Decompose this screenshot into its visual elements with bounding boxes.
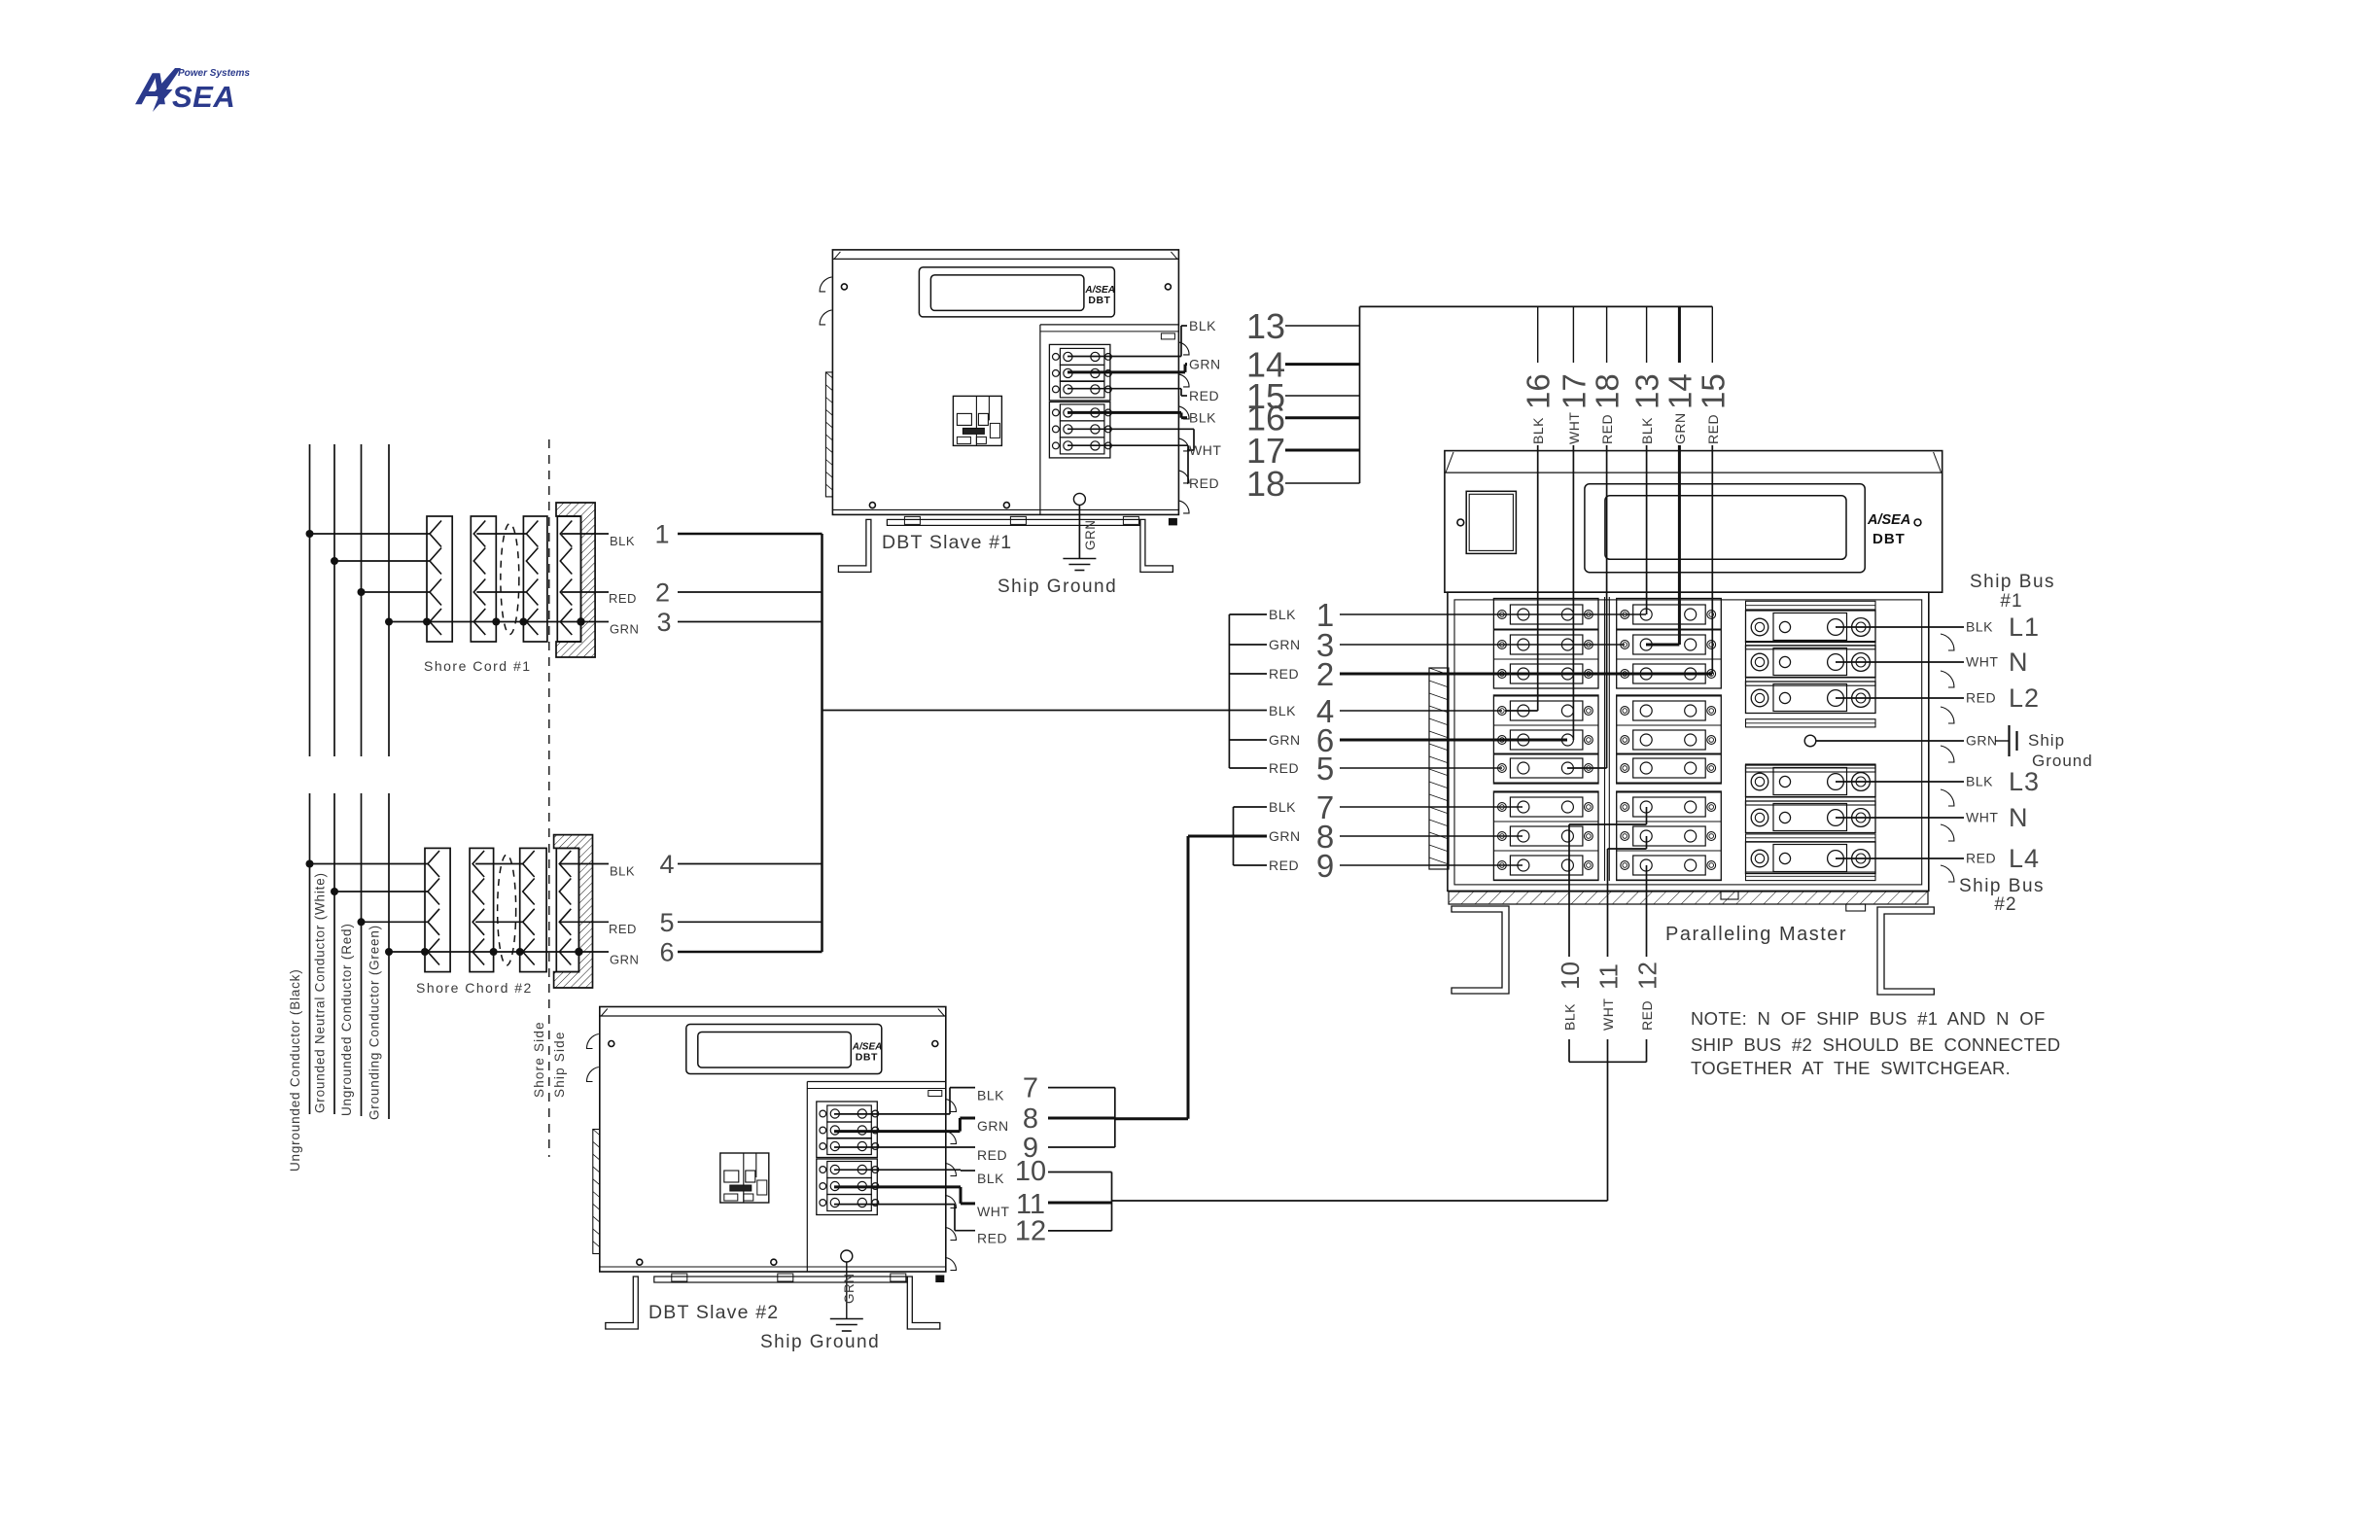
wire slave1 row6 to label RED 18 — [1067, 444, 1188, 446]
svg-text:GRN: GRN — [1269, 732, 1301, 748]
wire stub 11 — [1607, 1039, 1609, 1062]
svg-text:L2: L2 — [2009, 683, 2040, 713]
svg-text:#1: #1 — [2000, 591, 2022, 612]
wire slave2 row6 to label RED 12 — [834, 1204, 955, 1206]
wire lead 11 — [1048, 1202, 1112, 1205]
svg-text:GRN: GRN — [1189, 357, 1221, 372]
mounting tabs master — [1721, 892, 1738, 899]
master lower section — [1448, 592, 1929, 891]
svg-text:RED: RED — [1966, 851, 1996, 866]
svg-text:GRN: GRN — [1966, 733, 1998, 749]
wire lead 8 — [1048, 1117, 1115, 1120]
bus bar strip — [1746, 642, 1876, 649]
feet DBT Slave #2 — [606, 1277, 639, 1329]
terminal strip master column 2 — [1617, 599, 1722, 689]
svg-text:12: 12 — [1633, 962, 1662, 990]
wire shore1 row1 plug2-plug3 — [476, 533, 526, 535]
svg-text:Ground: Ground — [2032, 752, 2093, 770]
svg-text:Ungrounded Conductor (Red): Ungrounded Conductor (Red) — [339, 923, 354, 1116]
connector shore plug body 3 — [523, 516, 547, 642]
circuit breaker DBT Slave #2 — [720, 1153, 769, 1203]
svg-text:Grounding Conductor (Green): Grounding Conductor (Green) — [367, 925, 382, 1120]
bus block ship bus2 N — [1746, 801, 1876, 833]
cable gland strip left DBT Slave #1 — [825, 372, 832, 497]
unit Paralleling Master enclosure — [1445, 451, 1942, 593]
wire ship bus lead BLK — [1836, 626, 1964, 628]
wire master input 4 — [1340, 710, 1502, 712]
svg-text:RED: RED — [609, 922, 637, 936]
svg-text:L1: L1 — [2009, 612, 2040, 642]
wire ship bus lead WHT — [1836, 817, 1964, 819]
svg-text:2: 2 — [1316, 656, 1334, 692]
svg-text:#2: #2 — [1994, 894, 2016, 915]
svg-text:16: 16 — [1521, 373, 1557, 409]
wire drop 16 upper — [1537, 306, 1539, 363]
circuit breaker DBT Slave #1 — [953, 396, 1001, 445]
wire ship bus lead BLK — [1836, 781, 1964, 783]
svg-text:BLK: BLK — [610, 864, 635, 879]
bus bar strip — [1746, 719, 1876, 727]
master bottom hatch strip — [1449, 892, 1928, 904]
svg-text:Shore Cord #1: Shore Cord #1 — [424, 658, 532, 674]
svg-text:GRN: GRN — [1269, 637, 1301, 652]
wire shore1 row3 RED feed — [362, 591, 431, 593]
svg-text:TOGETHER AT THE SWITCHGEAR.: TOGETHER AT THE SWITCHGEAR. — [1691, 1058, 2011, 1078]
wire shore2 row2 WHT feed — [334, 891, 428, 892]
svg-text:BLK: BLK — [1639, 417, 1655, 444]
svg-text:L4: L4 — [2009, 844, 2040, 873]
svg-text:RED: RED — [1966, 690, 1996, 706]
svg-text:WHT: WHT — [1600, 998, 1616, 1031]
connector shore plug body 2 — [471, 516, 496, 642]
wire shore2 row1 BLK feed — [310, 863, 429, 865]
wire bracket stub — [1229, 767, 1267, 769]
ground symbol ship ground master — [1995, 740, 2009, 742]
wire shore feed grounded neutral (white) #2 — [333, 793, 335, 1114]
wire bundle shore to paralleling master — [822, 710, 1268, 712]
wire node4 to bundle — [678, 863, 822, 865]
svg-text:BLK: BLK — [1966, 619, 1993, 635]
wire shore2 row3 plug2-plug3 — [475, 921, 523, 923]
ground symbol ship ground slave1 — [1063, 558, 1096, 560]
svg-text:8: 8 — [1023, 1103, 1038, 1135]
svg-text:GRN: GRN — [610, 953, 639, 967]
wire slave2 row2 to label GRN 8 — [834, 1130, 960, 1133]
wire node5 to bundle — [678, 921, 822, 923]
wire 12 master bottom — [1646, 865, 1648, 957]
wire shore1 row2 WHT feed — [334, 560, 430, 562]
wire ship bus lead RED — [1836, 857, 1964, 859]
svg-text:RED: RED — [1269, 857, 1299, 873]
svg-text:RED: RED — [1599, 414, 1615, 444]
wire ship bus lead RED — [1836, 697, 1964, 699]
screw holes DBT Slave #1 — [841, 284, 847, 290]
wire bracket stub — [1229, 673, 1267, 675]
wire lead 16 to bundle — [1285, 416, 1360, 419]
louver flaps right master — [1941, 634, 1954, 650]
svg-text:WHT: WHT — [1189, 442, 1221, 458]
svg-text:DBT: DBT — [856, 1052, 878, 1064]
svg-text:NOTE: N OF SHIP BUS #1 AND N O: NOTE: N OF SHIP BUS #1 AND N OF — [1691, 1008, 2046, 1029]
svg-text:RED: RED — [609, 591, 637, 606]
svg-text:SEA: SEA — [172, 80, 235, 114]
button square master — [1466, 491, 1516, 553]
wire stub 10 — [1568, 1039, 1570, 1062]
svg-text:18: 18 — [1590, 373, 1626, 409]
wire master input 5 — [1340, 767, 1502, 769]
wire shore2 row3 inlet-label RED — [560, 921, 609, 923]
wire master input 9 — [1340, 864, 1522, 866]
wire bracket master inputs 1-6 — [1228, 614, 1230, 768]
wire master input 2 — [1340, 673, 1712, 676]
svg-text:1: 1 — [654, 520, 669, 549]
svg-text:DBT Slave #1: DBT Slave #1 — [882, 532, 1012, 553]
wire master input 3 — [1340, 644, 1625, 646]
wire 10 master bottom — [1568, 824, 1570, 957]
svg-text:Ship Bus: Ship Bus — [1959, 876, 2045, 896]
wire node1 to bundle — [678, 533, 822, 536]
louver flaps left DBT Slave #1 — [820, 277, 831, 292]
wire lead 7 — [1048, 1087, 1115, 1089]
svg-text:BLK: BLK — [1269, 607, 1296, 622]
svg-text:Ship: Ship — [2028, 731, 2065, 750]
wire bracket stub — [1234, 864, 1268, 866]
logo ASEA Power Systems — [135, 63, 250, 114]
svg-text:5: 5 — [1316, 751, 1334, 787]
display DBT Slave #2 — [686, 1025, 882, 1074]
svg-text:Ship Bus: Ship Bus — [1970, 572, 2055, 592]
svg-text:10: 10 — [1015, 1156, 1046, 1187]
ground terminal DBT Slave #2 — [841, 1250, 853, 1262]
wire slave1 row3 to label RED 15 — [1067, 388, 1181, 390]
bus bar strip — [1746, 872, 1876, 881]
foot master right — [1877, 907, 1934, 995]
svg-text:BLK: BLK — [1189, 410, 1216, 426]
svg-text:13: 13 — [1629, 373, 1665, 409]
wire shore1 row1 BLK feed — [310, 533, 431, 535]
cable gland strip left master — [1429, 668, 1449, 869]
svg-text:RED: RED — [1705, 414, 1721, 444]
wire slave2 row5 to label WHT 11 — [834, 1185, 961, 1188]
svg-text:7: 7 — [1023, 1073, 1038, 1104]
svg-text:BLK: BLK — [1269, 703, 1296, 718]
svg-text:Ship Side: Ship Side — [552, 1031, 567, 1098]
bus block ship bus1 N — [1746, 646, 1876, 678]
wire 13 into master — [1646, 445, 1648, 614]
ground wire GRN slave1 — [1078, 505, 1080, 558]
wire shore2 row3 RED feed — [362, 921, 429, 923]
wire master input 6 — [1340, 739, 1567, 742]
wire drop 18 upper — [1606, 306, 1608, 363]
svg-text:10: 10 — [1556, 962, 1585, 990]
bus bar strip — [1746, 834, 1876, 842]
terminal panel DBT Slave #1 — [1039, 325, 1041, 515]
svg-text:GRN: GRN — [977, 1118, 1009, 1134]
svg-text:12: 12 — [1015, 1216, 1046, 1247]
svg-text:A/SEA: A/SEA — [1867, 512, 1910, 528]
svg-text:BLK: BLK — [1530, 417, 1546, 444]
bus block ship bus2 L4 — [1746, 842, 1876, 874]
wire slave1 row4 to label BLK 16 — [1067, 411, 1181, 414]
svg-text:18: 18 — [1246, 464, 1285, 504]
wire slave2 row1 to label BLK 7 — [834, 1113, 950, 1115]
screw holes DBT Slave #2 — [609, 1041, 614, 1047]
wire 11 master bottom — [1607, 849, 1609, 957]
svg-text:RED: RED — [977, 1231, 1007, 1246]
svg-text:GRN: GRN — [1269, 828, 1301, 844]
base plate DBT Slave #2 — [600, 1266, 946, 1268]
svg-text:11: 11 — [1594, 963, 1624, 990]
wire slave2 789 cable to master — [1115, 1117, 1188, 1120]
wire stub 12 — [1646, 1039, 1648, 1062]
enclosure DBT Slave #1 box — [832, 250, 1178, 515]
svg-text:17: 17 — [1556, 373, 1592, 409]
wire ship bus lead WHT — [1836, 661, 1964, 663]
bus block ship bus2 L3 — [1746, 765, 1876, 797]
svg-text:Ungrounded Conductor (Black): Ungrounded Conductor (Black) — [288, 969, 302, 1172]
wire shore feed ungrounded conductor (red) #2 — [361, 793, 363, 1116]
wire slave1 row2 to label GRN 14 — [1067, 370, 1185, 373]
svg-text:GRN: GRN — [610, 622, 639, 637]
svg-text:RED: RED — [1189, 388, 1219, 403]
connector ship inlet receptacle (hatched) — [556, 503, 595, 657]
svg-text:Power Systems: Power Systems — [178, 68, 250, 79]
svg-text:RED: RED — [977, 1147, 1007, 1163]
wire shore feed grounded neutral (white) #1 — [333, 444, 335, 756]
screw holes master — [1457, 519, 1464, 526]
wire bracket master bottom — [1569, 1061, 1647, 1063]
wire slave1 row5 to label WHT 17 — [1067, 428, 1194, 430]
wire master bottom cable to slave2 — [1112, 1200, 1608, 1202]
ground terminal DBT Slave #1 — [1073, 493, 1085, 505]
wire slave2 row4 to label BLK 10 — [834, 1169, 961, 1171]
wire master input 1 — [1340, 613, 1646, 615]
base plate DBT Slave #1 — [832, 508, 1178, 510]
bus bar strip — [1746, 764, 1876, 772]
connector cable coupler dashed ellipse — [501, 524, 519, 635]
wire master input 7 — [1340, 806, 1522, 808]
wire bracket stub — [1234, 806, 1268, 808]
wire shore2 row1 plug2-plug3 — [475, 863, 523, 865]
svg-text:Ship Ground: Ship Ground — [760, 1332, 880, 1352]
svg-text:DBT Slave #2: DBT Slave #2 — [648, 1302, 779, 1323]
enclosure DBT Slave #2 box — [600, 1007, 946, 1273]
terminal block DBT Slave #1 — [1049, 344, 1110, 401]
svg-text:2: 2 — [655, 578, 670, 608]
wire 15 into master — [1711, 445, 1713, 674]
svg-text:BLK: BLK — [610, 534, 635, 548]
svg-text:SHIP BUS #2 SHOULD BE CONNECTE: SHIP BUS #2 SHOULD BE CONNECTED — [1691, 1034, 2060, 1055]
wire bundle vertical slave1 leads — [1359, 306, 1361, 483]
terminal block DBT Slave #2 — [817, 1102, 878, 1158]
wire shore1 row1 inlet-label BLK — [562, 533, 609, 535]
feet DBT Slave #1 — [838, 519, 871, 572]
svg-text:N: N — [2009, 647, 2029, 677]
wire drop 14 upper — [1678, 306, 1681, 363]
wire shore feed ungrounded conductor (red) #1 — [361, 444, 363, 756]
svg-text:RED: RED — [1269, 666, 1299, 682]
wire shore1 row3 inlet-label RED — [562, 591, 609, 593]
svg-text:BLK: BLK — [1269, 799, 1296, 815]
wire shore feed grounding conductor (green) #2 — [388, 793, 390, 1119]
terminal panel DBT Slave #2 — [806, 1082, 808, 1273]
connector shore plug body 3 — [520, 848, 546, 971]
wire lead 15 to bundle — [1285, 395, 1360, 397]
svg-text:9: 9 — [1316, 848, 1334, 884]
wire bracket stub — [1229, 739, 1267, 741]
bus block ship bus1 L2 — [1746, 682, 1876, 714]
svg-text:Shore Chord #2: Shore Chord #2 — [416, 980, 533, 996]
svg-text:GRN: GRN — [1083, 520, 1098, 551]
svg-text:WHT: WHT — [1966, 654, 1998, 670]
wire 18 into master — [1606, 445, 1608, 768]
wire 14 into master — [1678, 445, 1681, 645]
svg-text:Grounded Neutral Conductor (Wh: Grounded Neutral Conductor (White) — [313, 872, 328, 1113]
svg-text:Shore Side: Shore Side — [532, 1021, 546, 1098]
junction slave2 789 — [1114, 1088, 1116, 1147]
svg-text:GRN: GRN — [842, 1274, 857, 1305]
svg-text:BLK: BLK — [1562, 1003, 1578, 1031]
wire lead 14 to bundle — [1285, 363, 1360, 366]
wire shore feed grounding conductor (green) #1 — [388, 444, 390, 756]
svg-text:Ship Ground: Ship Ground — [997, 577, 1117, 597]
wire master bottom cable down — [1607, 1062, 1609, 1201]
svg-text:5: 5 — [659, 908, 674, 937]
cable gland strip left DBT Slave #2 — [593, 1130, 600, 1254]
svg-text:BLK: BLK — [1189, 318, 1216, 333]
wire node6 to bundle — [678, 951, 822, 954]
wire master input 8 — [1340, 835, 1522, 837]
bus bar strip — [1746, 678, 1876, 685]
louver flaps right DBT Slave #2 — [946, 1100, 957, 1112]
wire lead 18 to bundle — [1285, 482, 1360, 484]
wire drop 15 upper — [1711, 306, 1713, 363]
wire bracket stub — [1229, 613, 1267, 615]
display master — [1585, 484, 1865, 573]
svg-text:RED: RED — [1269, 760, 1299, 776]
wire drop 13 upper — [1646, 306, 1648, 363]
svg-text:14: 14 — [1662, 373, 1697, 409]
ground symbol ship ground slave2 — [830, 1318, 863, 1320]
wire slave1 row1 to label BLK 13 — [1067, 356, 1181, 358]
wire bundle top run to master — [1360, 305, 1713, 307]
svg-text:DBT: DBT — [1088, 295, 1110, 306]
connector shore plug body 1 — [425, 848, 450, 971]
connector shore plug body 1 — [427, 516, 452, 642]
wire shore1 row4 GRN feed-through — [389, 621, 609, 623]
louver flaps left DBT Slave #2 — [586, 1034, 598, 1049]
wire shore2 row4 GRN feed-through — [389, 951, 609, 953]
wire lead 17 to bundle — [1285, 449, 1360, 452]
display DBT Slave #1 — [919, 267, 1114, 317]
svg-text:4: 4 — [659, 850, 674, 879]
svg-text:WHT: WHT — [977, 1204, 1009, 1219]
wire 17 into master — [1572, 445, 1574, 740]
wire shore feed ungrounded conductor (black) #1 — [309, 444, 311, 756]
wire bracket master inputs 7-9 — [1233, 807, 1235, 865]
terminal strip master column 1 — [1493, 599, 1598, 689]
connector cable coupler dashed ellipse — [498, 855, 516, 965]
svg-text:L3: L3 — [2009, 767, 2040, 796]
divider master columns — [1604, 597, 1606, 881]
svg-text:N: N — [2009, 803, 2029, 832]
junction dots shore1 — [306, 530, 314, 538]
wire node3 to bundle — [678, 621, 822, 623]
wire bundle vertical shore cords — [821, 534, 823, 952]
boundary dashed shore/ship side — [548, 439, 550, 1157]
wire shore2 row1 inlet-label BLK — [560, 863, 609, 865]
svg-text:WHT: WHT — [1966, 810, 1998, 825]
svg-text:13: 13 — [1246, 306, 1285, 346]
svg-text:RED: RED — [1639, 1000, 1655, 1031]
svg-text:BLK: BLK — [977, 1171, 1004, 1186]
svg-text:3: 3 — [656, 608, 671, 637]
wire shore feed ungrounded conductor (black) #2 — [309, 793, 311, 1114]
wire drop 17 upper — [1572, 306, 1574, 363]
wire slave2 row3 to label RED 9 — [834, 1146, 975, 1148]
junction slave2 101112 — [1111, 1172, 1113, 1231]
louver flaps right DBT Slave #1 — [1178, 342, 1189, 355]
bus block ship bus1 L1 — [1746, 611, 1876, 643]
bus bar strip — [1746, 797, 1876, 805]
wire lead 13 to bundle — [1285, 325, 1360, 327]
connector ship inlet receptacle (hatched) — [554, 835, 593, 988]
wire ship bus lead GRN — [1816, 740, 1964, 742]
wire lead 9 — [1048, 1146, 1115, 1148]
svg-text:GRN: GRN — [1672, 412, 1688, 444]
svg-text:BLK: BLK — [1966, 774, 1993, 789]
svg-text:RED: RED — [1189, 475, 1219, 491]
ground terminal master GRN — [1804, 735, 1816, 747]
wire 16 into master — [1537, 445, 1539, 711]
junction dots shore2 — [306, 860, 314, 868]
svg-text:Paralleling Master: Paralleling Master — [1665, 924, 1847, 945]
wire lead 12 — [1048, 1230, 1112, 1232]
svg-text:BLK: BLK — [977, 1088, 1004, 1103]
wire node2 to bundle — [678, 591, 822, 593]
wire lead 10 — [1048, 1172, 1112, 1173]
wire shore1 row3 plug2-plug3 — [476, 591, 526, 593]
connector shore plug body 2 — [470, 848, 494, 971]
ground wire GRN slave2 — [846, 1262, 848, 1319]
svg-text:WHT: WHT — [1566, 412, 1582, 444]
svg-text:DBT: DBT — [1872, 531, 1906, 547]
bus bar strip — [1746, 601, 1876, 610]
foot master left — [1452, 906, 1509, 994]
wire bracket stub — [1229, 644, 1267, 646]
svg-text:6: 6 — [659, 938, 674, 967]
svg-text:15: 15 — [1695, 373, 1731, 409]
